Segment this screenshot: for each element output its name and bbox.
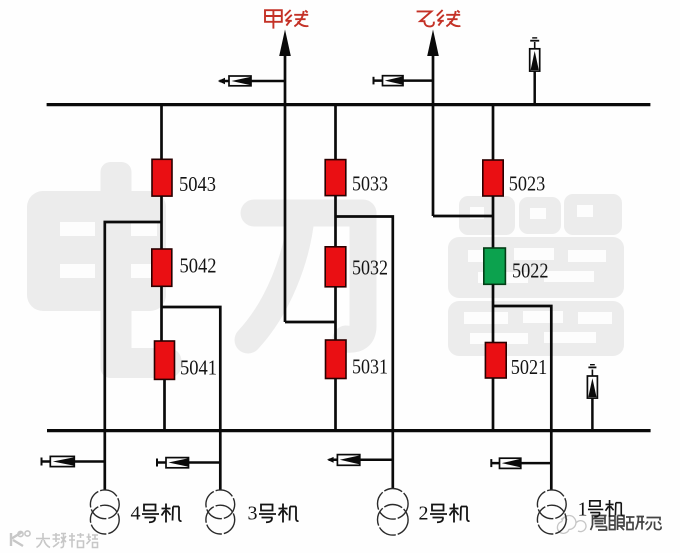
line 乙线 arrowhead xyxy=(427,30,439,57)
wire: 5021 to bus W2 xyxy=(492,378,495,431)
arrester F5 on G3 riser xyxy=(157,458,220,468)
generator G3 xyxy=(206,490,235,534)
wire: bus W1 to breaker 5023 (right string x=493) xyxy=(492,105,495,161)
svg-text:5032: 5032 xyxy=(352,256,388,280)
generator G2 xyxy=(378,489,409,536)
svg-text:5033: 5033 xyxy=(352,172,388,196)
breaker 5043 (closed, red) xyxy=(152,159,172,196)
label 4号机 xyxy=(131,503,182,525)
label 1号机 xyxy=(578,499,624,521)
breaker 5032 (closed, red) xyxy=(325,247,346,287)
wire: 5023 to 5022 xyxy=(492,196,495,248)
breaker 5022 (open, green) xyxy=(484,248,506,284)
generator G4 (two overlapped circles) xyxy=(90,490,119,534)
bus W2 (bottom busbar) xyxy=(47,429,651,432)
node/tap wire from middle string to 甲线 (y=322) xyxy=(285,321,336,324)
wire: line 乙线 feeder (x=433) down to tap between 5023/5022 xyxy=(432,50,435,216)
arrester F2 on 乙线 xyxy=(374,76,434,86)
node/tap wire to generator G3 riser (x=220.3) xyxy=(162,307,221,490)
svg-text:5043: 5043 xyxy=(179,172,216,196)
label 乙线 (red) xyxy=(417,10,461,26)
label 甲线 (red) xyxy=(265,10,308,29)
svg-text:5023: 5023 xyxy=(509,171,546,195)
wire: 5042 to 5041 xyxy=(160,286,163,341)
svg-text:5021: 5021 xyxy=(511,355,548,379)
node/tap wire to generator G2 riser (x=392.8) xyxy=(336,217,393,489)
arrester F7 on G1 riser xyxy=(491,458,551,468)
arrester F8 (vertical, on bus W2 right) xyxy=(587,365,597,431)
wire: 5022 to 5021 xyxy=(492,284,495,342)
svg-text:5022: 5022 xyxy=(512,258,549,282)
bus W1 (top busbar) xyxy=(47,103,651,106)
generator G1 xyxy=(537,490,566,534)
node/tap wire to generator G1 riser (x=551.3) xyxy=(493,306,551,490)
arrester F1 on 甲线 (rect with left arrow) xyxy=(218,76,285,86)
wire: bus W1 to breaker 5043 (left string x=161.5) xyxy=(160,105,163,160)
label 3号机 xyxy=(248,503,299,525)
arrester F6 on G2 riser xyxy=(327,455,393,466)
node/tap wire from right string to 乙线 (y=216) xyxy=(433,215,493,218)
svg-text:3: 3 xyxy=(248,503,258,525)
breaker 5021 (closed, red) xyxy=(485,343,506,379)
node/tap wire to generator G4 riser (x=104.8) xyxy=(105,222,162,490)
breaker 5033 (closed, red) xyxy=(325,160,346,196)
svg-text:1: 1 xyxy=(578,499,588,521)
wire: 5041 to bus W2 xyxy=(163,379,166,430)
breaker 5031 (closed, red) xyxy=(326,340,347,379)
wire: bus W1 to breaker 5033 (middle string x=335.5) xyxy=(334,105,337,160)
wire: 5031 to bus W2 xyxy=(334,379,337,431)
line 甲线 arrowhead xyxy=(279,30,291,57)
breaker 5042 (closed, red) xyxy=(152,249,172,286)
svg-text:2: 2 xyxy=(419,503,429,525)
arrester F4 on G4 riser xyxy=(42,456,105,466)
breaker 5023 (closed, red) xyxy=(483,160,503,196)
svg-text:5031: 5031 xyxy=(352,355,388,379)
wire: 5043 to 5042 xyxy=(160,196,163,249)
breaker 5041 (closed, red) xyxy=(155,341,175,379)
wire: 5032 to 5031 xyxy=(334,287,337,340)
svg-text:5042: 5042 xyxy=(180,254,217,278)
wire: line 甲线 feeder (x=285) down to tap between 5032/5031 xyxy=(284,50,287,322)
svg-text:5041: 5041 xyxy=(180,355,217,379)
label 2号机 xyxy=(419,503,470,525)
wire: 5033 to 5032 xyxy=(334,196,337,247)
arrester F3 (vertical, on bus W1 right) xyxy=(530,38,540,104)
svg-text:4: 4 xyxy=(131,503,141,525)
